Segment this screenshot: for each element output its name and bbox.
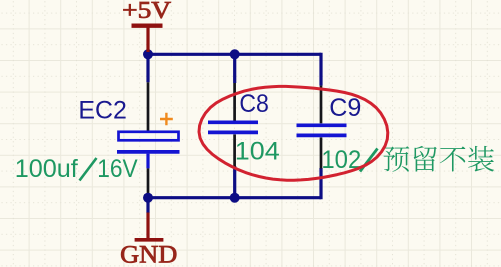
wire bottom bus	[147, 196, 322, 199]
value note 不	[440, 146, 466, 171]
svg-text:100uf: 100uf	[15, 155, 79, 183]
value 100uf/16V slash	[80, 158, 97, 181]
pin C8 bottom	[233, 134, 236, 166]
wire C8 top drop	[233, 54, 236, 83]
value note 预	[384, 146, 410, 172]
junction at +5V / top bus	[143, 49, 153, 59]
svg-text:EC2: EC2	[78, 96, 127, 124]
highlight ellipse around C8 C9	[199, 86, 388, 180]
svg-text:+5V: +5V	[122, 0, 172, 24]
capacitor C8 plates	[208, 122, 258, 132]
value note 留	[414, 146, 437, 172]
value slash	[360, 149, 378, 172]
power port +5V bar	[132, 24, 163, 28]
EC2 polarity plus mark	[160, 113, 173, 126]
power port GND lead	[146, 213, 149, 240]
svg-text:16V: 16V	[97, 155, 137, 183]
junction at C8 / top bus	[230, 49, 240, 59]
value note 装	[468, 146, 494, 172]
wire EC2 bottom stub	[146, 154, 149, 169]
wire +5V to EC2 vertical	[146, 53, 149, 83]
pin C9 top	[320, 86, 323, 124]
wire top bus	[147, 53, 322, 56]
wire C9 top drop	[321, 53, 323, 86]
capacitor C9 plates	[297, 125, 347, 135]
wire C8 bottom rise	[233, 166, 236, 198]
pin C8 top	[233, 83, 236, 121]
svg-text:C9: C9	[329, 94, 361, 122]
svg-text:GND: GND	[120, 242, 177, 267]
junction at GND / bottom bus	[143, 193, 153, 203]
svg-text:104: 104	[235, 138, 280, 166]
junction at C8 / bottom bus	[230, 193, 240, 203]
pin C9 bottom	[320, 137, 323, 168]
capacitor EC2 polarized plates	[117, 132, 180, 152]
wire GND stub	[146, 198, 149, 213]
pin EC2 bottom	[147, 168, 150, 194]
pin EC2 top	[147, 82, 150, 133]
power port +5V lead	[146, 26, 149, 52]
power port GND bar	[135, 238, 164, 242]
svg-text:C8: C8	[239, 90, 269, 118]
wire C9 bottom rise	[321, 168, 323, 199]
